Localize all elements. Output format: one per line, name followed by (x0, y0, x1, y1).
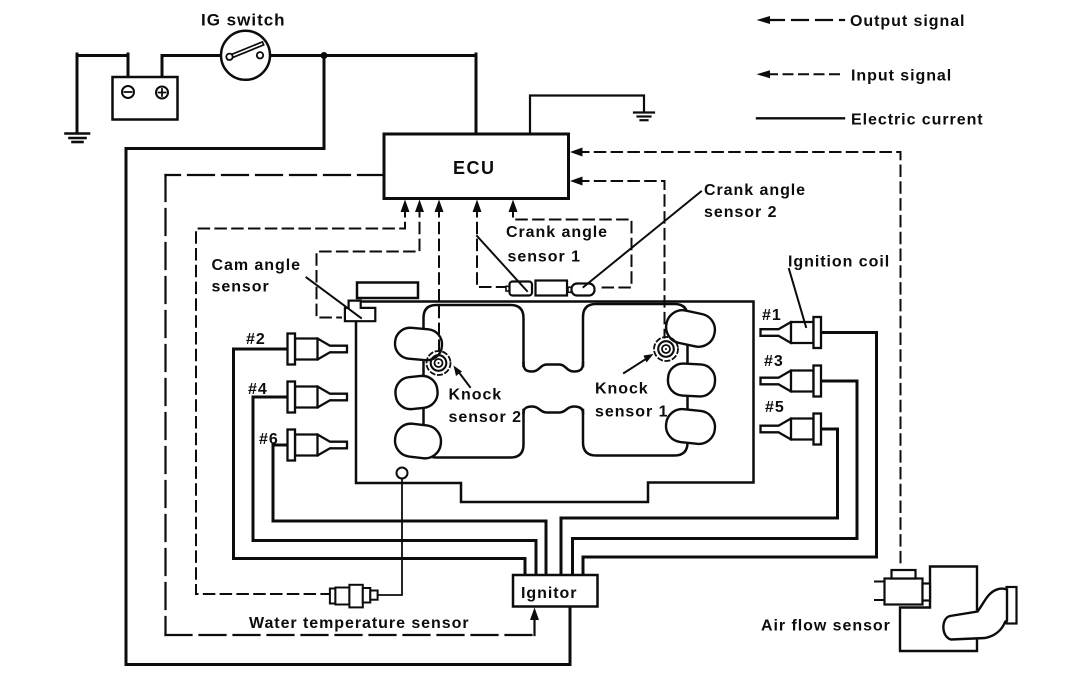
svg-text:#6: #6 (259, 431, 279, 448)
svg-text:Ignition coil: Ignition coil (788, 254, 890, 271)
svg-text:Knock: Knock (595, 381, 649, 398)
svg-text:Cam angle: Cam angle (212, 257, 301, 274)
svg-text:Knock: Knock (449, 387, 503, 404)
svg-text:Air flow sensor: Air flow sensor (761, 618, 891, 635)
svg-text:#1: #1 (762, 307, 782, 324)
svg-text:Electric current: Electric current (851, 112, 984, 129)
svg-text:#2: #2 (246, 331, 266, 348)
svg-text:Input signal: Input signal (851, 68, 952, 85)
svg-text:ECU: ECU (453, 158, 496, 178)
svg-text:sensor 2: sensor 2 (449, 409, 522, 426)
svg-text:#4: #4 (248, 381, 268, 398)
svg-text:Ignitor: Ignitor (521, 585, 577, 602)
svg-text:IG switch: IG switch (201, 11, 286, 30)
svg-text:#3: #3 (764, 353, 784, 370)
svg-text:sensor 1: sensor 1 (508, 249, 581, 266)
svg-text:Output signal: Output signal (850, 13, 965, 30)
svg-text:Crank angle: Crank angle (704, 182, 806, 199)
svg-text:sensor 1: sensor 1 (595, 404, 668, 421)
svg-text:sensor: sensor (212, 279, 270, 296)
svg-text:Crank angle: Crank angle (506, 224, 608, 241)
svg-text:#5: #5 (765, 399, 785, 416)
svg-text:Water temperature sensor: Water temperature sensor (249, 615, 470, 632)
svg-text:sensor 2: sensor 2 (704, 204, 777, 221)
